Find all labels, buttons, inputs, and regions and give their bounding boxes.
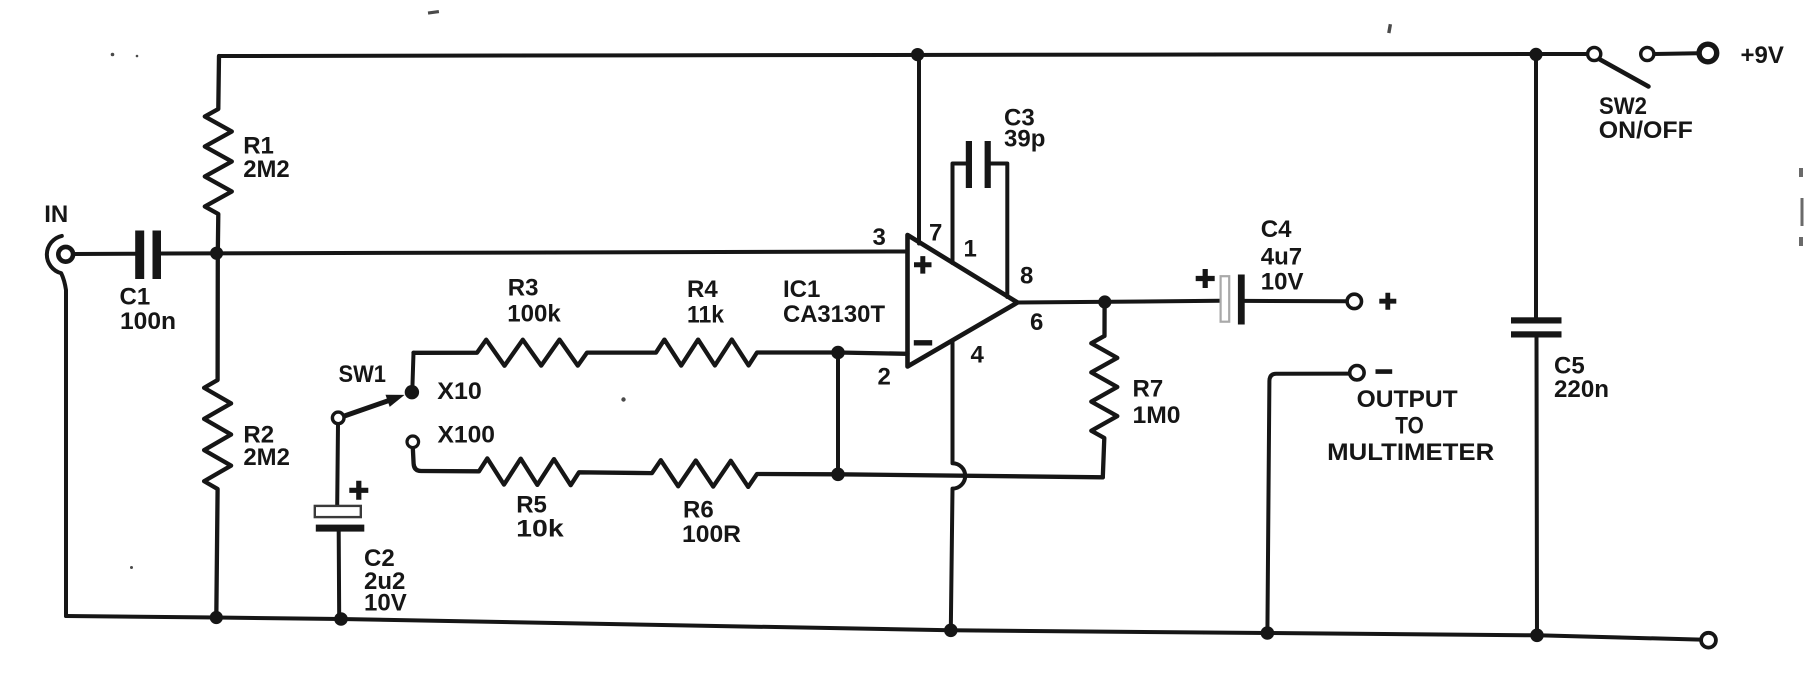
svg-text:10V: 10V bbox=[364, 590, 407, 617]
svg-text:39p: 39p bbox=[1004, 125, 1045, 152]
svg-text:R6: R6 bbox=[683, 497, 714, 524]
svg-text:R4: R4 bbox=[687, 276, 718, 303]
svg-text:SW1: SW1 bbox=[339, 361, 387, 388]
svg-text:100R: 100R bbox=[682, 521, 741, 548]
svg-text:X10: X10 bbox=[437, 378, 482, 405]
svg-text:2M2: 2M2 bbox=[243, 156, 290, 183]
svg-text:SW2: SW2 bbox=[1599, 93, 1647, 120]
svg-text:C1: C1 bbox=[120, 284, 151, 311]
svg-text:8: 8 bbox=[1020, 263, 1033, 290]
svg-text:OUTPUT: OUTPUT bbox=[1357, 386, 1458, 413]
svg-text:10V: 10V bbox=[1261, 269, 1304, 296]
svg-text:1M0: 1M0 bbox=[1133, 402, 1181, 429]
svg-text:MULTIMETER: MULTIMETER bbox=[1327, 439, 1494, 466]
svg-text:4: 4 bbox=[971, 342, 985, 369]
svg-text:220n: 220n bbox=[1554, 376, 1609, 403]
svg-text:R7: R7 bbox=[1133, 376, 1164, 403]
svg-text:R5: R5 bbox=[516, 492, 547, 519]
svg-text:1: 1 bbox=[964, 236, 977, 263]
svg-text:TO: TO bbox=[1395, 413, 1424, 440]
svg-text:7: 7 bbox=[929, 220, 942, 247]
svg-text:IN: IN bbox=[44, 201, 68, 228]
svg-text:6: 6 bbox=[1030, 309, 1043, 336]
svg-text:ON/OFF: ON/OFF bbox=[1599, 117, 1693, 144]
svg-text:10k: 10k bbox=[516, 516, 564, 543]
svg-text:2M2: 2M2 bbox=[243, 444, 290, 471]
svg-text:100n: 100n bbox=[120, 308, 176, 335]
svg-text:R3: R3 bbox=[508, 274, 539, 301]
svg-text:100k: 100k bbox=[507, 301, 561, 328]
svg-text:11k: 11k bbox=[687, 301, 725, 328]
svg-text:C4: C4 bbox=[1261, 216, 1292, 243]
svg-text:3: 3 bbox=[873, 224, 886, 251]
svg-text:CA3130T: CA3130T bbox=[783, 301, 885, 328]
svg-text:4u7: 4u7 bbox=[1261, 244, 1302, 271]
svg-text:2: 2 bbox=[878, 364, 891, 391]
svg-text:X100: X100 bbox=[438, 422, 496, 449]
svg-text:+9V: +9V bbox=[1741, 42, 1784, 69]
svg-text:IC1: IC1 bbox=[783, 276, 820, 303]
